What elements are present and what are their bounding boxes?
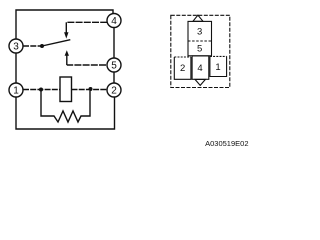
svg-text:5: 5 [111,61,117,72]
svg-text:3: 3 [13,42,19,53]
svg-text:5: 5 [197,44,202,55]
svg-text:3: 3 [197,27,202,38]
svg-text:4: 4 [111,16,117,27]
svg-text:4: 4 [197,63,202,74]
svg-text:2: 2 [111,86,117,97]
svg-text:1: 1 [13,86,19,97]
svg-text:1: 1 [215,62,220,73]
svg-text:2: 2 [180,63,185,74]
svg-text:A030519E02: A030519E02 [205,139,248,148]
